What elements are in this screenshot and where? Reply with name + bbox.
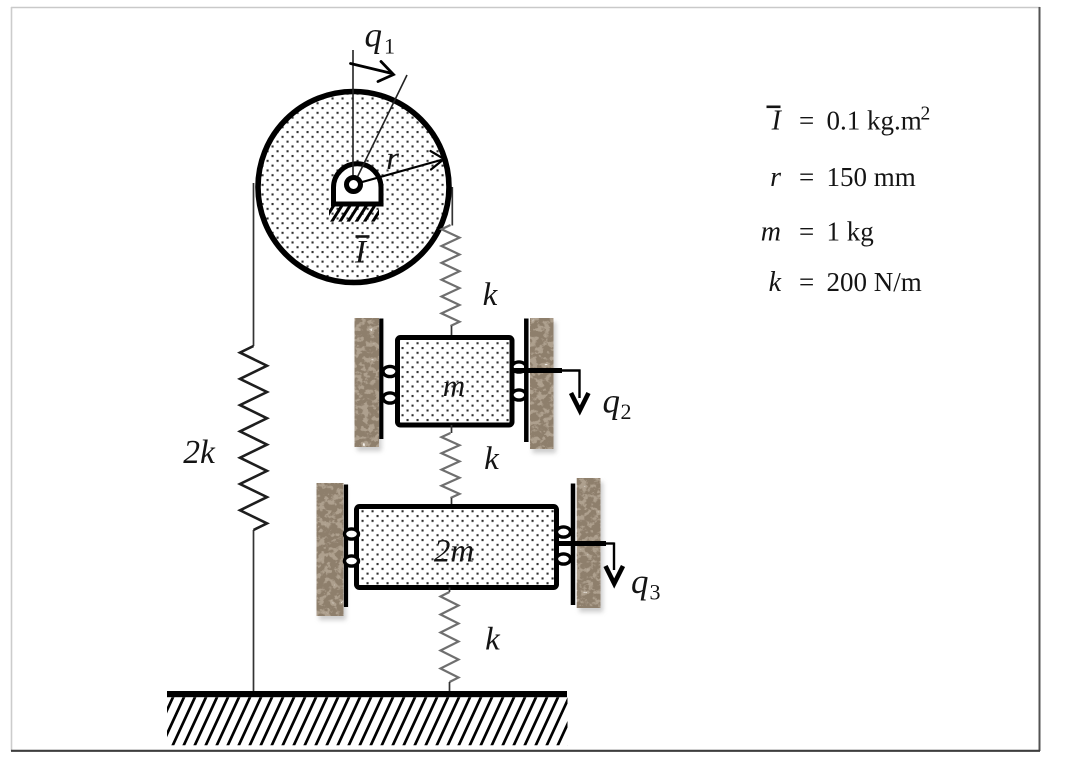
svg-text:r: r (770, 162, 781, 193)
ground hatching (150, 695, 592, 747)
svg-text:k: k (483, 277, 499, 313)
rotated radius reference line (354, 75, 408, 185)
svg-text:2k: 2k (183, 434, 216, 471)
mass 2m (357, 507, 557, 588)
wall line left of 2m (344, 485, 348, 608)
svg-text:I: I (354, 235, 368, 271)
pivot pin (347, 178, 361, 192)
wall line right of m (524, 319, 529, 443)
rollers right of m (512, 362, 526, 400)
wall texture right of m (530, 318, 556, 453)
pivot hatching (323, 202, 385, 223)
svg-text:0.1 kg.m: 0.1 kg.m (827, 106, 922, 136)
label I-bar on pulley (354, 235, 370, 271)
svg-text:2m: 2m (434, 534, 474, 570)
wall texture right of 2m (577, 478, 603, 612)
svg-text:k: k (769, 267, 782, 298)
rollers left of m (383, 366, 397, 403)
svg-text:=: = (799, 106, 814, 136)
wall texture left of m (355, 318, 382, 451)
svg-text:=: = (799, 267, 814, 297)
wall line left of m (379, 319, 383, 440)
svg-text:k: k (484, 441, 500, 477)
wall texture left of 2m (317, 483, 347, 620)
rollers left of 2m (345, 529, 359, 566)
svg-text:200 N/m: 200 N/m (827, 267, 922, 297)
svg-text:=: = (799, 162, 814, 192)
label q3 (631, 562, 661, 605)
wire: spring k1 to mass m (451, 326, 453, 338)
mass m (398, 338, 513, 426)
svg-text:q: q (365, 16, 383, 55)
parameter text panel (761, 104, 930, 299)
ground bar (167, 691, 567, 697)
pivot dome support (334, 164, 382, 204)
svg-text:r: r (386, 141, 399, 177)
svg-text:m: m (443, 368, 465, 403)
rollers right of 2m (557, 527, 571, 564)
spring k3 (2m to ground) (449, 588, 451, 593)
svg-text:150 mm: 150 mm (827, 162, 916, 192)
wire: left cable lower segment (spring 2k to ground) (253, 530, 255, 691)
svg-text:2: 2 (621, 399, 632, 424)
spring k2 (m to 2m) (451, 425, 453, 433)
arrow q1 (351, 62, 394, 82)
svg-text:q: q (603, 382, 621, 421)
svg-text:2: 2 (921, 104, 931, 125)
radius arrow r (355, 151, 444, 184)
vertical reference line (352, 50, 354, 186)
svg-text:k: k (485, 622, 501, 658)
svg-text:1 kg: 1 kg (827, 217, 874, 247)
label q1 (365, 16, 396, 59)
wire: left cable upper segment (pulley rim to spring 2k) (253, 183, 255, 346)
svg-text:1: 1 (384, 34, 395, 59)
svg-text:=: = (799, 217, 814, 247)
spring k1 (pulley to m) (442, 225, 460, 326)
svg-text:m: m (761, 217, 781, 248)
spring 2k (240, 346, 267, 530)
svg-text:3: 3 (650, 580, 661, 605)
arrow q3 (557, 543, 623, 584)
label q2 (603, 382, 632, 425)
pulley disc I-bar (258, 92, 449, 283)
wire: right cable from pulley rim to spring k1 (451, 187, 453, 226)
wall line right of 2m (571, 484, 576, 606)
svg-text:q: q (631, 562, 649, 601)
svg-text:I: I (771, 106, 783, 137)
arrow q2 (512, 370, 589, 411)
